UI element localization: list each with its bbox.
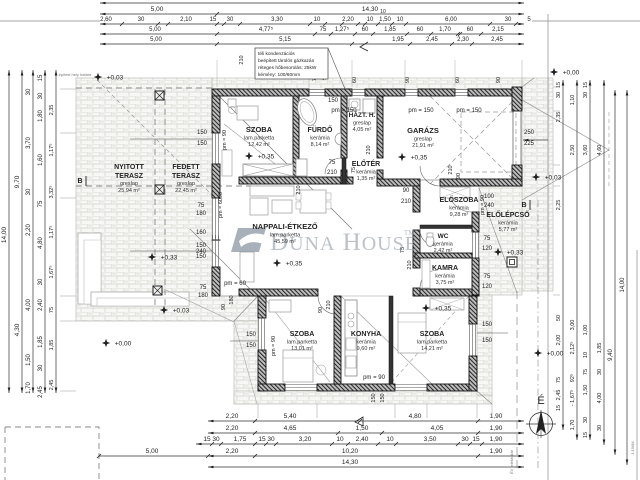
leader window living west [130,250,212,252]
wall wc/kamra [415,253,472,258]
top chain row C [100,23,524,25]
garage east wall upper [512,87,522,111]
paving elolepcso area [479,186,522,295]
svg-text:1:15/84: 1:15/84 [630,441,635,455]
svg-text:1,95: 1,95 [392,37,404,43]
right chain line 3 [589,80,591,440]
desk szoba13 [269,300,291,312]
svg-text:FEDETT: FEDETT [172,164,200,171]
svg-text:3,32⁵: 3,32⁵ [48,186,55,199]
bottom chain row 5 [208,466,524,468]
svg-text:TERASZ: TERASZ [172,173,201,180]
svg-text:14,00: 14,00 [1,226,8,243]
svg-text:1,10: 1,10 [570,95,576,106]
svg-text:+0,33: +0,33 [161,255,178,262]
svg-text:1,90: 1,90 [490,413,503,420]
svg-text:2,50: 2,50 [570,145,576,156]
west wall pier 2 [212,164,220,198]
svg-text:210: 210 [448,165,454,174]
svg-text:1,70: 1,70 [439,27,451,33]
sofa group nappali [250,186,294,196]
svg-text:75: 75 [198,203,205,209]
diagonal szoba14 a [341,296,432,384]
svg-text:30: 30 [597,425,603,431]
svg-text:21,91 m²: 21,91 m² [412,143,434,149]
top chain row A [100,2,524,4]
svg-text:1,50: 1,50 [379,17,391,23]
wall szoba13/konyha [334,296,341,384]
svg-text:180: 180 [229,295,235,304]
svg-text:30: 30 [227,17,234,23]
dresser szoba tl [222,150,232,176]
leader from spec box [328,48,345,89]
paving boundary dashed x517 [516,291,518,470]
svg-text:pm = 6090: pm = 6090 [218,192,224,218]
svg-text:14,00: 14,00 [620,277,626,293]
svg-text:téli kondenzációs: téli kondenzációs [258,51,295,57]
wall furdo/elotere stub [341,170,347,184]
terrace door 160 [213,198,219,240]
north wall segment 2 [325,89,352,96]
svg-text:5,00: 5,00 [146,448,159,455]
svg-text:75: 75 [49,307,55,313]
svg-text:kerámia: kerámia [356,340,377,346]
svg-text:lam.parketta: lam.parketta [244,136,275,142]
garage south wall west part [377,179,420,186]
tv cabinet nappali [240,252,254,282]
bed szoba13 [283,350,313,382]
svg-text:SZOBA: SZOBA [420,331,445,338]
svg-text:kerámia: kerámia [356,170,377,176]
svg-text:15: 15 [38,74,44,81]
svg-text:30: 30 [26,188,32,195]
svg-text:90: 90 [403,188,410,194]
svg-text:10: 10 [397,17,404,23]
svg-text:150: 150 [482,322,493,328]
svg-text:4,05: 4,05 [431,425,444,432]
svg-text:150: 150 [197,130,208,136]
bottom chain row 4 [208,455,524,457]
svg-text:10: 10 [336,436,344,443]
wing south wall segment 3 [427,384,477,391]
section arrow A bottom [355,417,363,426]
level +0,00 ne [550,68,558,76]
svg-text:kerámia: kerámia [433,242,454,248]
svg-text:75: 75 [484,274,491,280]
wc toilet [426,236,434,247]
kamra shelf [422,260,430,288]
svg-text:150: 150 [371,393,377,402]
svg-text:pm = 90: pm = 90 [480,195,486,215]
svg-text:NYITOTT: NYITOTT [114,164,145,171]
window szoba13 west 150 [259,318,265,350]
hip diagonal wing nw corner [234,296,258,321]
svg-text:2,20: 2,20 [226,413,239,420]
svg-text:2,45: 2,45 [426,37,438,43]
svg-text:30: 30 [267,436,275,443]
eloszoba west wall lower [413,288,420,296]
wing west wall upper [258,296,266,318]
svg-text:30: 30 [505,17,512,23]
svg-text:építési hely határa: építési hely határa [59,72,92,77]
svg-text:160: 160 [196,230,207,236]
svg-text:KAMRA: KAMRA [432,265,458,272]
bathtub oval [294,96,320,128]
window garage 2 (north) [455,90,468,96]
svg-text:1,70: 1,70 [26,382,32,394]
diagonal szoba14 b [390,296,469,384]
svg-text:150: 150 [246,343,257,349]
garden steps white cutout left [78,233,101,304]
svg-text:pm = 150: pm = 150 [456,108,482,114]
right chain line 1 [562,80,564,430]
roof diagonal over terrace [97,80,213,196]
spec text box [255,48,328,79]
svg-text:14,21 m²: 14,21 m² [421,346,443,352]
svg-text:15: 15 [583,432,589,438]
terrace column post 3 [153,286,162,295]
level +0,33 elolepcso [494,248,502,256]
svg-text:2,60: 2,60 [100,17,112,23]
svg-text:B: B [77,178,82,185]
svg-text:5,40: 5,40 [284,413,297,420]
svg-text:1,90: 1,90 [490,425,503,432]
svg-text:5,00: 5,00 [151,6,164,13]
north wall segment 3 [365,89,405,96]
svg-text:4,00: 4,00 [26,299,32,311]
svg-text:210: 210 [296,185,302,194]
window living west 150 [213,240,219,267]
svg-text:75: 75 [556,377,562,383]
svg-text:+0,33: +0,33 [507,250,524,257]
svg-text:3,60: 3,60 [583,145,589,156]
left chain line 5 [55,70,57,393]
paving terrace area west [76,78,258,321]
svg-text:+0,35: +0,35 [286,261,303,268]
svg-text:15: 15 [556,405,562,411]
svg-text:pm = 90: pm = 90 [271,336,277,356]
svg-text:2,20: 2,20 [26,224,32,236]
svg-text:2,45: 2,45 [49,380,55,391]
level +0,35 nappali [273,259,281,267]
diagonal szoba13 [266,300,330,382]
svg-text:6,00: 6,00 [445,17,457,23]
svg-text:30: 30 [38,364,44,371]
wing south wall segment 1 [258,384,285,391]
svg-text:1,70: 1,70 [570,420,576,431]
svg-text:150: 150 [380,393,386,402]
svg-text:2,10: 2,10 [180,17,192,23]
top chain row D [100,33,524,35]
konyha top edge line [341,295,389,297]
svg-text:pm = 90: pm = 90 [363,375,386,381]
door arc garage-eloszoba [420,166,440,186]
right chain line 6 [626,90,628,465]
telekhatar dash-dot x538 [537,200,539,470]
level +0,03 nw [94,73,102,81]
living sw step line [220,295,239,297]
svg-text:kerámia: kerámia [498,221,519,227]
top chain row B [100,13,524,15]
kamra south wall [415,289,479,296]
extension lines top [216,60,218,87]
svg-text:30: 30 [138,17,145,23]
svg-text:60: 60 [362,27,369,33]
svg-text:75: 75 [38,200,44,207]
east pier 2 [472,258,479,295]
garden steps white cutout south [91,292,189,306]
plot boundary vertical right [547,14,549,480]
door arc szoba13 [318,296,336,314]
svg-text:kémény: 100/60mm: kémény: 100/60mm [258,72,300,78]
svg-text:75: 75 [583,369,589,375]
svg-text:5,00: 5,00 [150,37,162,43]
svg-text:15: 15 [583,82,589,88]
svg-text:10: 10 [314,17,321,23]
svg-text:120: 120 [482,246,493,252]
eloszoba west wall mid [413,230,420,268]
wall hazth/garage upper [377,96,383,158]
svg-text:22,45 m²: 22,45 m² [175,188,197,194]
svg-text:30: 30 [597,369,603,375]
hazt cabinet [363,99,375,113]
svg-text:2,30: 2,30 [457,37,469,43]
svg-text:1,85: 1,85 [49,340,55,351]
svg-text:4,80: 4,80 [409,413,422,420]
svg-text:É: É [537,394,544,407]
svg-text:+0,35: +0,35 [411,155,428,162]
svg-text:1,50: 1,50 [26,354,32,366]
north wall west segment [212,89,309,96]
level +0,03 sw [160,306,168,314]
svg-text:25,94 m²: 25,94 m² [118,188,140,194]
svg-text:ÉV telekhatár: ÉV telekhatár [509,449,514,474]
svg-text:kerámia: kerámia [435,274,456,280]
svg-text:13,01 m²: 13,01 m² [291,346,313,352]
svg-text:9,60 m²: 9,60 m² [357,346,376,352]
svg-text:2,35: 2,35 [556,112,562,123]
svg-text:3,75 m²: 3,75 m² [436,280,455,286]
page edge line bottom right [636,250,638,480]
svg-text:9,70: 9,70 [14,175,21,188]
door garage-eloszoba gap [420,179,440,181]
hip diagonal wing se corner [477,391,492,404]
svg-text:WC: WC [438,233,449,240]
svg-text:2,45: 2,45 [491,37,503,43]
wall konyha/szoba14 [389,296,393,384]
window furdo (north) [309,90,325,96]
svg-text:15: 15 [472,436,480,443]
garage south wall east part [440,179,522,186]
svg-text:4,65: 4,65 [284,425,297,432]
svg-text:+0,00: +0,00 [115,341,132,348]
leader window szoba13 west [230,340,258,342]
east pier 1 [472,212,479,232]
svg-text:15: 15 [210,17,217,23]
svg-text:1,90: 1,90 [490,436,503,443]
eloszoba wardrobe [440,187,470,198]
svg-text:240: 240 [196,249,207,255]
svg-text:1,85: 1,85 [38,336,44,348]
svg-text:4,77⁵: 4,77⁵ [259,26,274,33]
svg-text:1,85: 1,85 [384,27,396,33]
svg-text:75: 75 [351,167,357,173]
diagonal szoba nw [224,124,293,178]
svg-text:12,42 m²: 12,42 m² [248,142,270,148]
window szoba13 south [285,385,317,391]
svg-text:pm = 150: pm = 150 [331,108,357,114]
level +0,35 garage [398,153,406,161]
living north wall [239,177,353,184]
svg-text:SZOBA: SZOBA [246,125,273,134]
svg-text:90: 90 [318,307,324,313]
svg-text:9,28 m²: 9,28 m² [450,212,469,218]
svg-text:9,40: 9,40 [608,349,614,361]
svg-text:pm = 90: pm = 90 [222,130,228,150]
kitchen counter konyha [345,300,357,376]
svg-text:1,85: 1,85 [597,343,603,354]
svg-text:beépített tárolós gázkazán: beépített tárolós gázkazán [258,58,315,64]
level +0,00 garden [102,339,110,347]
svg-text:75: 75 [320,27,327,33]
svg-text:60: 60 [417,27,424,33]
svg-text:1,17⁵: 1,17⁵ [48,226,55,239]
level +0,35 szoba14 [422,304,430,312]
svg-text:B: B [521,202,526,209]
svg-text:150: 150 [328,98,339,104]
svg-text:1,50: 1,50 [356,425,369,432]
svg-text:greslap: greslap [120,181,138,187]
left chain line 2 [21,70,23,393]
eloszoba west wall upper [413,186,420,212]
svg-text:5,00: 5,00 [149,27,161,33]
terrace column post 1 [155,91,164,100]
extension lines bottom [257,404,259,418]
svg-text:75: 75 [200,285,207,291]
svg-text:210: 210 [407,260,413,269]
svg-text:+0,35: +0,35 [258,154,275,161]
svg-text:TERASZ: TERASZ [115,173,144,180]
wall hazth/garage stub [377,170,383,179]
svg-text:30: 30 [583,417,589,423]
svg-text:+0,03: +0,03 [173,308,190,315]
door arc entrance [448,188,472,212]
svg-text:+0,00: +0,00 [563,70,580,77]
roof hip diagonal living room [212,89,352,229]
svg-text:45,59 m²: 45,59 m² [274,239,296,245]
svg-text:1,27⁵: 1,27⁵ [335,26,350,33]
paving band south of wing [234,391,492,404]
roof diagonal to wing corner [190,229,258,297]
section arrow A top [360,42,368,51]
svg-text:2,40: 2,40 [38,299,44,311]
svg-text:greslap: greslap [177,181,195,187]
svg-text:lam.parketta: lam.parketta [270,233,301,239]
svg-text:14,30: 14,30 [362,6,379,13]
covered terrace roof outline dashed [76,88,258,308]
svg-text:10,20: 10,20 [342,448,359,455]
svg-text:75: 75 [484,236,491,242]
left chain line 1 [8,70,10,393]
svg-text:GARÁZS: GARÁZS [407,126,439,135]
svg-text:1,75: 1,75 [234,436,247,443]
level +0,00 se [534,349,542,357]
svg-text:10: 10 [386,436,394,443]
window szoba14 south [395,385,427,391]
svg-text:- 1,67⁵: - 1,67⁵ [569,390,576,406]
bed szoba14 [398,313,426,353]
svg-text:92⁵: 92⁵ [569,374,576,382]
garage door width arrow 250 [523,139,548,141]
bed szoba top-left [237,106,258,120]
svg-text:greslap: greslap [353,121,371,127]
terrace column post 2 [155,185,164,194]
svg-text:90: 90 [221,304,227,310]
paving band east of house [522,78,553,291]
bottom chain row 1 [208,420,524,422]
svg-text:3,00: 3,00 [570,320,576,331]
site boundary line left [0,20,100,22]
svg-text:NAPPALI-ÉTKEZŐ: NAPPALI-ÉTKEZŐ [252,222,317,231]
svg-text:210: 210 [366,145,372,154]
right chain line 5 [614,90,616,455]
svg-text:180: 180 [196,211,207,217]
svg-text:lam.parketta: lam.parketta [287,340,318,346]
svg-text:1,80: 1,80 [38,110,44,122]
wing east wall lower [469,356,477,391]
svg-text:10: 10 [583,352,589,358]
svg-text:5,77 m²: 5,77 m² [499,227,518,233]
window szoba14 east 150 [470,324,476,356]
svg-text:30: 30 [38,92,44,99]
svg-text:1,17⁵: 1,17⁵ [48,144,55,157]
svg-text:4,05 m²: 4,05 m² [353,127,372,133]
svg-text:kerámia: kerámia [310,136,331,142]
diagonal terrace south [166,290,234,322]
svg-text:2,00: 2,00 [556,335,562,346]
svg-text:150: 150 [197,141,208,147]
level +0,33 terrace [148,253,156,261]
door arc kamra [420,270,438,288]
svg-text:ELŐTÉR: ELŐTÉR [352,159,380,168]
hip diagonal garage ne corner [522,78,534,87]
svg-text:4,00: 4,00 [597,393,603,404]
leader window szoba west [130,138,212,140]
svg-text:greslap: greslap [414,137,432,143]
svg-text:75: 75 [400,247,406,253]
svg-text:4,60: 4,60 [597,145,603,156]
svg-text:pm = 60: pm = 60 [224,281,247,287]
svg-text:1,00: 1,00 [583,325,589,336]
svg-text:30: 30 [556,92,562,98]
svg-text:1,35 m²: 1,35 m² [357,176,376,182]
wall eloszoba/wc [420,225,472,229]
bottom chain row 3 [196,443,524,445]
door arc furdo [325,158,341,174]
garage attic dashed X [430,96,518,184]
svg-text:3,20: 3,20 [299,436,312,443]
wing south wall segment 2 [317,384,395,391]
svg-text:4,80: 4,80 [38,237,44,249]
svg-text:ELŐLÉPCSŐ: ELŐLÉPCSŐ [486,210,530,219]
svg-text:+0,35: +0,35 [435,306,452,313]
window garage 1 (north) [405,90,418,96]
top chain row E [100,43,524,45]
svg-text:60: 60 [467,27,474,33]
extension lines left [60,88,76,90]
svg-text:14,30: 14,30 [342,459,359,466]
svg-text:60: 60 [455,77,461,83]
